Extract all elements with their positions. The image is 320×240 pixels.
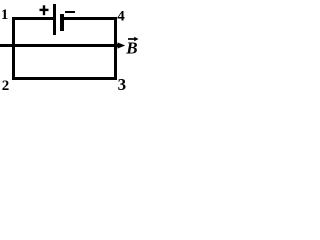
label - polarity [65, 11, 75, 13]
wire left edge of loop (1-2) [12, 17, 15, 80]
field line B (horizontal through loop) [0, 44, 118, 47]
wire top-right segment (battery - plate to node 4) [63, 17, 117, 20]
svg-text:2: 2 [2, 78, 10, 94]
wire right edge of loop (3-4) [114, 17, 117, 80]
battery B1 short plate (-) [60, 14, 64, 31]
battery B1 long plate (+) [53, 4, 56, 35]
svg-text:4: 4 [117, 9, 125, 25]
svg-text:B: B [125, 39, 137, 58]
wire bottom edge of loop (2-3) [12, 77, 117, 80]
label + polarity [40, 5, 49, 15]
arrowhead of field line [118, 42, 126, 48]
label vector B [125, 37, 138, 58]
svg-text:3: 3 [118, 75, 127, 94]
wire top-left segment (node 1 to battery + plate) [12, 17, 54, 20]
svg-text:1: 1 [1, 7, 8, 23]
